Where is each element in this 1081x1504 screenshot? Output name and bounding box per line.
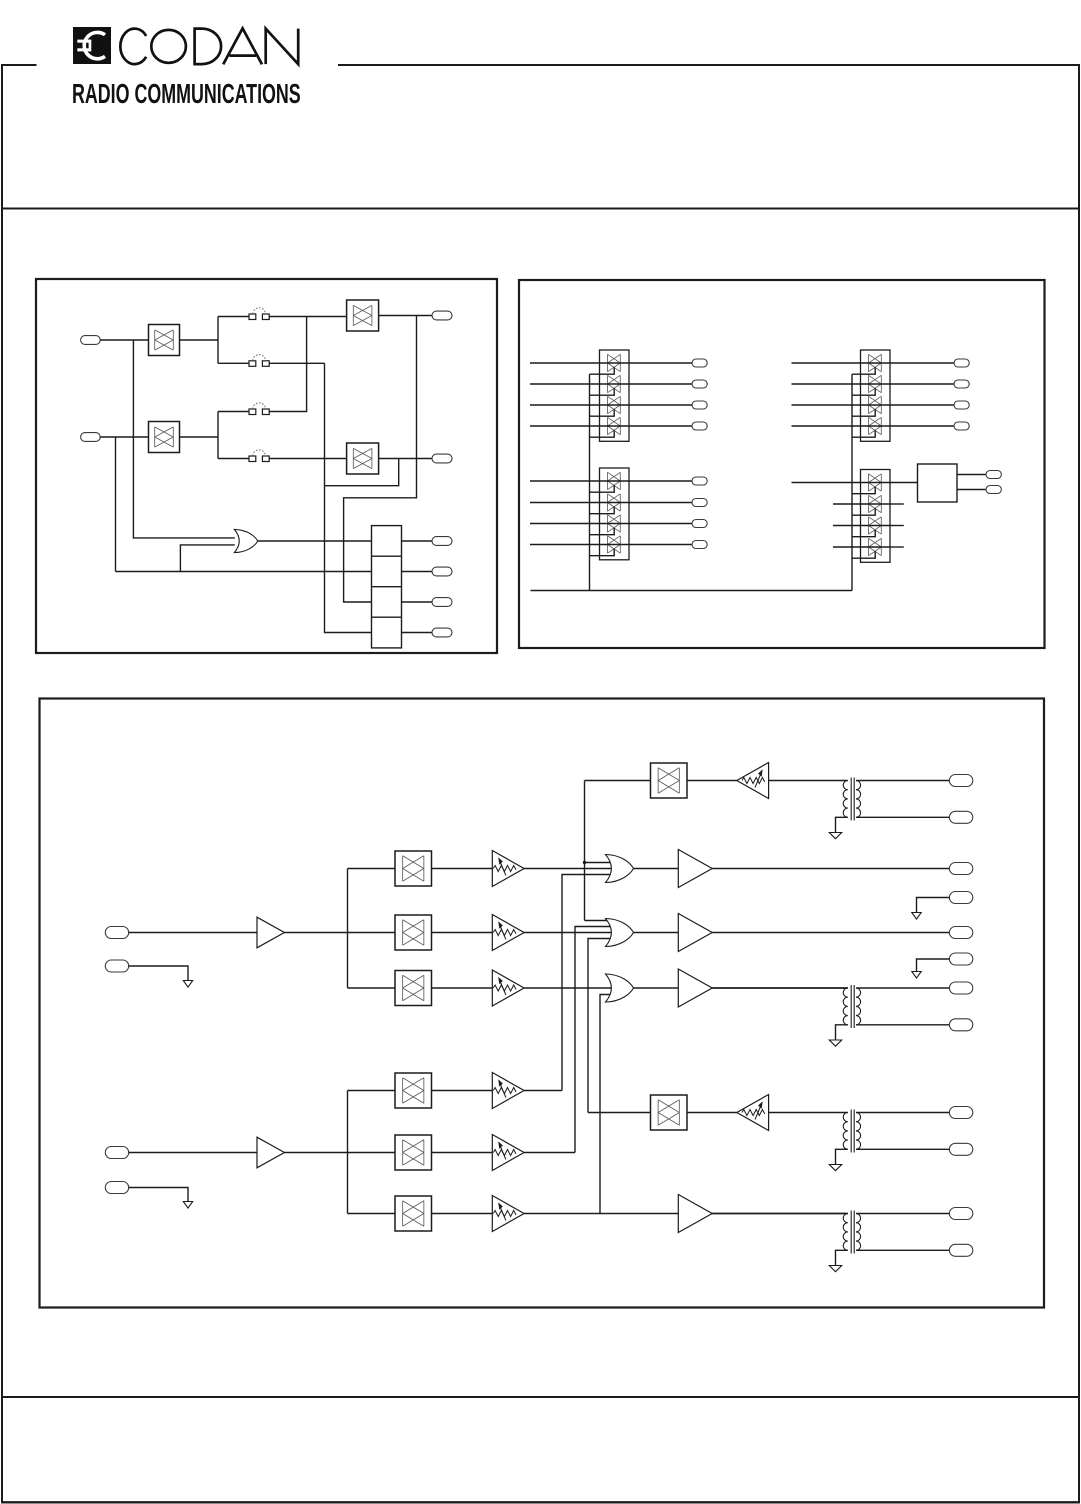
wire AT6 to line driver DR4 (524, 1213, 678, 1215)
wire M4 output to connector J4 (379, 458, 432, 460)
wire to link LK4 (218, 458, 249, 460)
wire A2 control tap (590, 388, 615, 395)
switch element D2 (869, 495, 882, 512)
wire C2 input (792, 383, 861, 385)
connector B1 output (692, 477, 707, 485)
wire LB1 output 2 (957, 489, 986, 491)
wire G3 input 2 riser from row 6 (600, 995, 614, 1214)
wire to link LK2 (218, 362, 249, 364)
connector stack output 4 (432, 628, 452, 637)
switch element D1 (869, 474, 882, 491)
wire D4 through (861, 546, 891, 548)
link LK2 (249, 361, 256, 367)
wire D3 input stub (833, 525, 861, 527)
switch element B3 (608, 515, 621, 532)
wire A3 through (600, 404, 630, 406)
connector ground stub 1 (949, 892, 972, 904)
wire LK2 output to crossover (269, 362, 325, 364)
svg-text:RADIO COMMUNICATIONS: RADIO COMMUNICATIONS (72, 79, 301, 110)
connector B3 output (692, 520, 707, 528)
wire A2 output (629, 383, 692, 385)
OR gate G2 (606, 919, 634, 947)
wire RX2 to attenuator ATR2 (687, 1112, 737, 1114)
connector C3 output (954, 401, 969, 409)
wire A2 input (530, 383, 600, 385)
variable attenuator AT6 (492, 1196, 524, 1232)
wire A4 through (600, 425, 630, 427)
connector A4 output (692, 422, 707, 430)
wire A2 through (600, 383, 630, 385)
block diagram box 3 border (40, 699, 1045, 1308)
connector C2 output (954, 380, 969, 388)
control bus right (851, 374, 853, 590)
wire B1 output (629, 480, 692, 482)
switch element B1 (608, 472, 621, 489)
connector TR3 port 2 (949, 1143, 972, 1155)
wire B1 control tap (590, 485, 615, 492)
wire summing line to decoder row 2 (116, 571, 372, 573)
wire D3 output stub (890, 525, 904, 527)
wire splitter to mixer MX3 (348, 987, 396, 989)
connector B2 output (692, 499, 707, 507)
link LK3 (249, 409, 256, 415)
wire stack out 1 (402, 540, 433, 542)
switch element B2 (608, 494, 621, 511)
connector A2 output (692, 380, 707, 388)
variable attenuator AT4 (492, 1073, 524, 1109)
wire G1 input 1 (585, 862, 614, 864)
mixer MX2 (395, 915, 432, 950)
connector ground stub 2 (949, 953, 972, 965)
wire stack out 4 (402, 632, 433, 634)
wire D4 input stub (833, 546, 861, 548)
switch element A1 (608, 354, 621, 371)
wire C3 control tap (852, 409, 875, 416)
switch element A2 (608, 375, 621, 392)
switch element C4 (869, 417, 882, 434)
splitter vertical lower (347, 1091, 349, 1214)
wire AT2 to OR gate G2 (524, 932, 613, 934)
line driver DR3 (678, 969, 712, 1007)
OR gate G3 (606, 974, 634, 1002)
wire MX6 to attenuator (432, 1213, 493, 1215)
wire C1 control tap (852, 367, 875, 374)
Codan logo icon (black square with white fork-C mark) (73, 27, 111, 64)
wire DR3 output to transformer TR2 (712, 987, 848, 989)
switch element A3 (608, 396, 621, 413)
connector J1 (input A) (81, 336, 101, 345)
switch block A outline (600, 350, 630, 441)
wire B4 output (629, 544, 692, 546)
wire G3 output to line driver (634, 987, 679, 989)
wire AT1 to OR gate G1 (524, 868, 613, 870)
wire B2 control tap (590, 507, 615, 514)
wire splitter to mixer MX6 (348, 1213, 396, 1215)
wire RX2 line from riser (588, 1112, 651, 1114)
variable attenuator AT3 (492, 970, 524, 1006)
wire LB1 output 1 (957, 474, 986, 476)
wire D4 output stub (890, 546, 904, 548)
wire C1 through (861, 362, 891, 364)
wire M3 output to connector J3 (379, 315, 432, 317)
wire A3 input (530, 404, 600, 406)
connector TR1 port 2 (949, 811, 972, 823)
termination arrow stub 2 (912, 972, 921, 979)
switch element C3 (869, 396, 882, 413)
wire G1 input 3 riser from row 4 (562, 875, 614, 1091)
wire G2 input 4 riser from receive mixer RX2 line (588, 939, 614, 1113)
wire A4 control tap (590, 430, 615, 437)
wire J1 to mixer M1 (100, 339, 148, 341)
connector A3 output (692, 401, 707, 409)
connector B4 output (692, 541, 707, 549)
wire P3 to buffer (129, 1152, 257, 1154)
wire C2 control tap (852, 388, 875, 395)
connector P3 (lower input) (105, 1147, 128, 1159)
wire BUF2 to splitter and mixer MX5 (284, 1152, 395, 1154)
connector stack output 1 (432, 537, 452, 546)
wire P2 to termination (129, 966, 188, 981)
connector upper output 2 (949, 927, 972, 939)
wire B2 output (629, 502, 692, 504)
termination arrow stub 1 (912, 913, 921, 920)
connector stack output 2 (432, 567, 452, 576)
wire BUF1 to splitter and mixer MX2 (284, 932, 395, 934)
wire G2 output to line driver (634, 932, 679, 934)
variable attenuator AT1 (492, 851, 524, 887)
termination arrow upper (183, 981, 192, 988)
mixer MX4 (395, 1073, 432, 1108)
connector P2 (upper aux) (105, 960, 128, 972)
mixer MX1 (395, 851, 432, 886)
wire crossover vertical down to decoder row 4 (325, 363, 372, 632)
wire D1 output to level block (890, 482, 918, 484)
receive mixer RX2 (651, 1095, 688, 1130)
wire B4 input (530, 544, 600, 546)
wire A4 output (629, 425, 692, 427)
connector A1 output (692, 359, 707, 367)
wire B3 through (600, 523, 630, 525)
wire LK1 output to mixer M3 (269, 316, 347, 318)
wire D2 input stub (833, 503, 861, 505)
connector C1 output (954, 359, 969, 367)
switch element C1 (869, 354, 882, 371)
buffer amplifier BUF2 (257, 1137, 284, 1168)
switch block D outline (861, 470, 891, 563)
level block LB1 (918, 464, 958, 502)
block diagram box 2 border (519, 280, 1045, 648)
wire A1 through (600, 362, 630, 364)
wire C3 output (890, 404, 954, 406)
wire D1 input (792, 482, 861, 484)
wire D3 through (861, 525, 891, 527)
variable attenuator ATR1 (leftward) (737, 763, 769, 799)
connector TR3 port 1 (949, 1107, 972, 1119)
connector LB1 output 1 (986, 471, 1001, 479)
node dot G1 input 1 (583, 861, 586, 864)
connector J2 (input B) (81, 433, 101, 442)
wire G2 input 2 riser from row 5 (575, 927, 614, 1153)
wire LK3 output up to M3 input line (269, 317, 307, 412)
connector TR4 output 2 (949, 1244, 972, 1256)
wire A3 output (629, 404, 692, 406)
wire J2 to mixer M2 (100, 436, 148, 438)
wire C4 output (890, 425, 954, 427)
wire B1 input (530, 480, 600, 482)
wire ground stub 1 (917, 898, 950, 913)
variable attenuator AT2 (492, 915, 524, 951)
wire B3 input (530, 523, 600, 525)
link LK1 (249, 314, 256, 320)
connector upper output 1 (949, 863, 972, 875)
connector TR2 output 2 (949, 1019, 972, 1031)
wire B2 through (600, 502, 630, 504)
buffer amplifier BUF1 (257, 917, 284, 948)
connector TR4 output 1 (949, 1208, 972, 1220)
switch block C outline (861, 350, 891, 441)
wire C4 control tap (852, 430, 875, 437)
wire G2 input 1 (585, 920, 614, 922)
receive mixer RX1 (651, 763, 688, 798)
wire MX2 to attenuator (432, 932, 493, 934)
wire LK4 output to mixer M4 (269, 458, 347, 460)
wire A1 control tap (590, 367, 615, 374)
line driver DR1 (678, 850, 712, 888)
switch element B4 (608, 536, 621, 553)
variable attenuator ATR2 (leftward) (737, 1095, 769, 1131)
mixer MX6 (395, 1196, 432, 1231)
wire RX1 to attenuator ATR1 (687, 780, 737, 782)
wire B2 input (530, 502, 600, 504)
wire C2 through (861, 383, 891, 385)
control bus left (589, 374, 591, 590)
connector TR2 output 1 (949, 982, 972, 994)
connector LB1 output 2 (986, 486, 1001, 494)
wire C2 output (890, 383, 954, 385)
connector C4 output (954, 422, 969, 430)
wire M1 output to link splitter (180, 339, 219, 341)
wire C1 output (890, 362, 954, 364)
line transformer TR2 (712, 987, 848, 989)
connector P1 (upper input) (105, 927, 128, 939)
wire A4 input (530, 425, 600, 427)
splitter vertical upper (347, 869, 349, 989)
OR gate G1 (606, 855, 634, 883)
wire AT3 to OR gate G3 (524, 987, 613, 989)
switch element D3 (869, 517, 882, 534)
wire MX5 to attenuator (432, 1152, 493, 1154)
wire splitter to mixer MX4 (348, 1090, 396, 1092)
wire splitter to mixer MX1 (348, 868, 396, 870)
block diagram box 1 border (36, 279, 497, 653)
wire D1 through (861, 482, 891, 484)
line transformer TR1 (769, 780, 848, 782)
bus riser from receive mixer RX1 line (584, 781, 586, 921)
wire D2 output stub (890, 503, 904, 505)
wire DR4 output to transformer TR4 (712, 1213, 848, 1215)
mixer M4 (347, 443, 379, 474)
wire OR output to decoder row 1 (258, 540, 372, 542)
switch element D4 (869, 538, 882, 555)
wire MX1 to attenuator (432, 868, 493, 870)
wire to link LK3 (218, 411, 249, 413)
wire to link LK1 (218, 316, 249, 318)
connector stack output 3 (432, 598, 452, 607)
line transformer TR4 (712, 1213, 848, 1215)
switch element C2 (869, 375, 882, 392)
wire C3 through (861, 404, 891, 406)
wire RX1 line from bus riser (585, 780, 651, 782)
variable attenuator AT5 (492, 1135, 524, 1171)
wire D2 control tap (852, 508, 875, 515)
wire D1 control tap (852, 487, 875, 494)
wire AT5 to riser (524, 1152, 575, 1154)
wire MX4 to attenuator (432, 1090, 493, 1092)
mixer M1 (149, 325, 180, 356)
wire MX3 to attenuator (432, 987, 493, 989)
mixer M2 (149, 422, 180, 453)
wire C3 input (792, 404, 861, 406)
connector TR1 port 1 (949, 775, 972, 787)
wire A1 output (629, 362, 692, 364)
line driver DR4 (678, 1195, 712, 1233)
line driver DR2 (678, 914, 712, 952)
connector P4 (lower aux) (105, 1182, 128, 1194)
mixer M3 (347, 300, 379, 331)
wire D3 control tap (852, 530, 875, 537)
wire P4 to termination (129, 1188, 188, 1202)
decoder stack DS1 (4 cells) (372, 526, 402, 648)
termination arrow lower (183, 1202, 192, 1209)
wire D4 control tap (852, 551, 875, 558)
wire M4 output loop to decoder row 4 feed (325, 459, 399, 486)
line transformer TR3 (769, 1112, 848, 1114)
wire P1 to buffer (129, 932, 257, 934)
wire D2 through (861, 503, 891, 505)
mixer MX5 (395, 1135, 432, 1170)
wire stack out 3 (402, 601, 433, 603)
wire C1 input (792, 362, 861, 364)
wire B3 output (629, 523, 692, 525)
wire DR2 output to connector (712, 932, 949, 934)
wire M3 output loop down to decoder row 3 (344, 316, 417, 603)
connector J3 (output) (432, 311, 452, 320)
CODAN wordmark (thin geometric capitals) (120, 28, 298, 64)
wire B4 through (600, 544, 630, 546)
wire ground stub 2 (917, 959, 950, 972)
wire node tap down to summing line (115, 437, 117, 572)
wire B3 control tap (590, 528, 615, 535)
wire B4 control tap (590, 549, 615, 556)
wire DR1 output to connector (712, 868, 949, 870)
switch element A4 (608, 417, 621, 434)
wire node tap down to OR gate input 1 (133, 340, 234, 538)
connector J4 (output) (432, 454, 452, 463)
wire C4 input (792, 425, 861, 427)
wire stack out 2 (402, 571, 433, 573)
wire AT4 to riser (524, 1090, 562, 1092)
wire C4 through (861, 425, 891, 427)
wire OR input 2 riser (180, 545, 234, 572)
switch block B outline (600, 468, 630, 560)
wire A3 control tap (590, 409, 615, 416)
wire B1 through (600, 480, 630, 482)
wire M2 output to link splitter (180, 436, 219, 438)
link LK4 (249, 456, 256, 462)
wire splitter vertical to links LK1 LK2 (217, 317, 219, 364)
wire A1 input (530, 362, 600, 364)
mixer MX3 (395, 971, 432, 1006)
wire G1 output to line driver (634, 868, 679, 870)
control line (531, 590, 853, 592)
wire splitter vertical to links LK3 LK4 (217, 412, 219, 459)
